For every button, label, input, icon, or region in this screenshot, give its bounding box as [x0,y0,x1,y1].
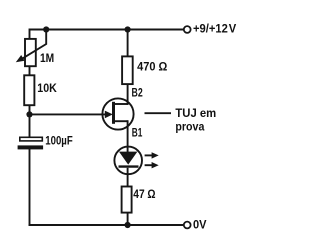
transistor UJT under test [102,98,133,129]
node junction bottom of 47 ohm [125,222,131,228]
wire 470 ohm to UJT base2 [127,84,129,104]
label TUJ em prova [175,106,216,133]
node junction top of potentiometer wiper [43,26,49,32]
resistor 47 ohm [122,187,156,213]
potentiometer R1 1M [16,30,54,67]
svg-text:47 Ω: 47 Ω [133,187,156,201]
terminal 0V [184,218,207,232]
wire left rail pot to 10K [29,66,31,75]
wire 47 ohm to bottom rail [127,213,129,225]
leader line to UJT [145,112,172,114]
LED B1-emitter indicator [114,147,158,175]
svg-text:B2: B2 [132,86,143,100]
svg-text:prova: prova [175,119,204,133]
svg-text:B1: B1 [132,126,143,140]
resistor 10K [24,75,57,105]
svg-text:1M: 1M [40,51,54,65]
wire left rail capacitor to bottom [29,149,31,225]
wire bottom rail [30,224,184,226]
terminal +9/+12V [184,22,236,36]
node junction emitter branch [26,111,32,117]
wire LED to 47 ohm [127,174,129,187]
wire UJT base1 to LED [127,121,129,147]
wire right rail drop to 470 ohm [127,30,129,57]
wire left rail 10K to capacitor [29,105,31,137]
capacitor C1 100uF [18,134,73,150]
svg-text:10K: 10K [37,81,57,95]
svg-text:100µF: 100µF [45,134,72,148]
svg-text:470 Ω: 470 Ω [137,60,168,74]
resistor 470 ohm [122,56,168,84]
svg-text:TUJ em: TUJ em [175,106,216,120]
wire top rail [30,30,184,39]
node junction top of 470 ohm [125,26,131,32]
svg-text:0V: 0V [193,218,207,232]
wire emitter from left rail to UJT [30,113,107,115]
svg-text:+9/+12 V: +9/+12 V [193,22,236,36]
